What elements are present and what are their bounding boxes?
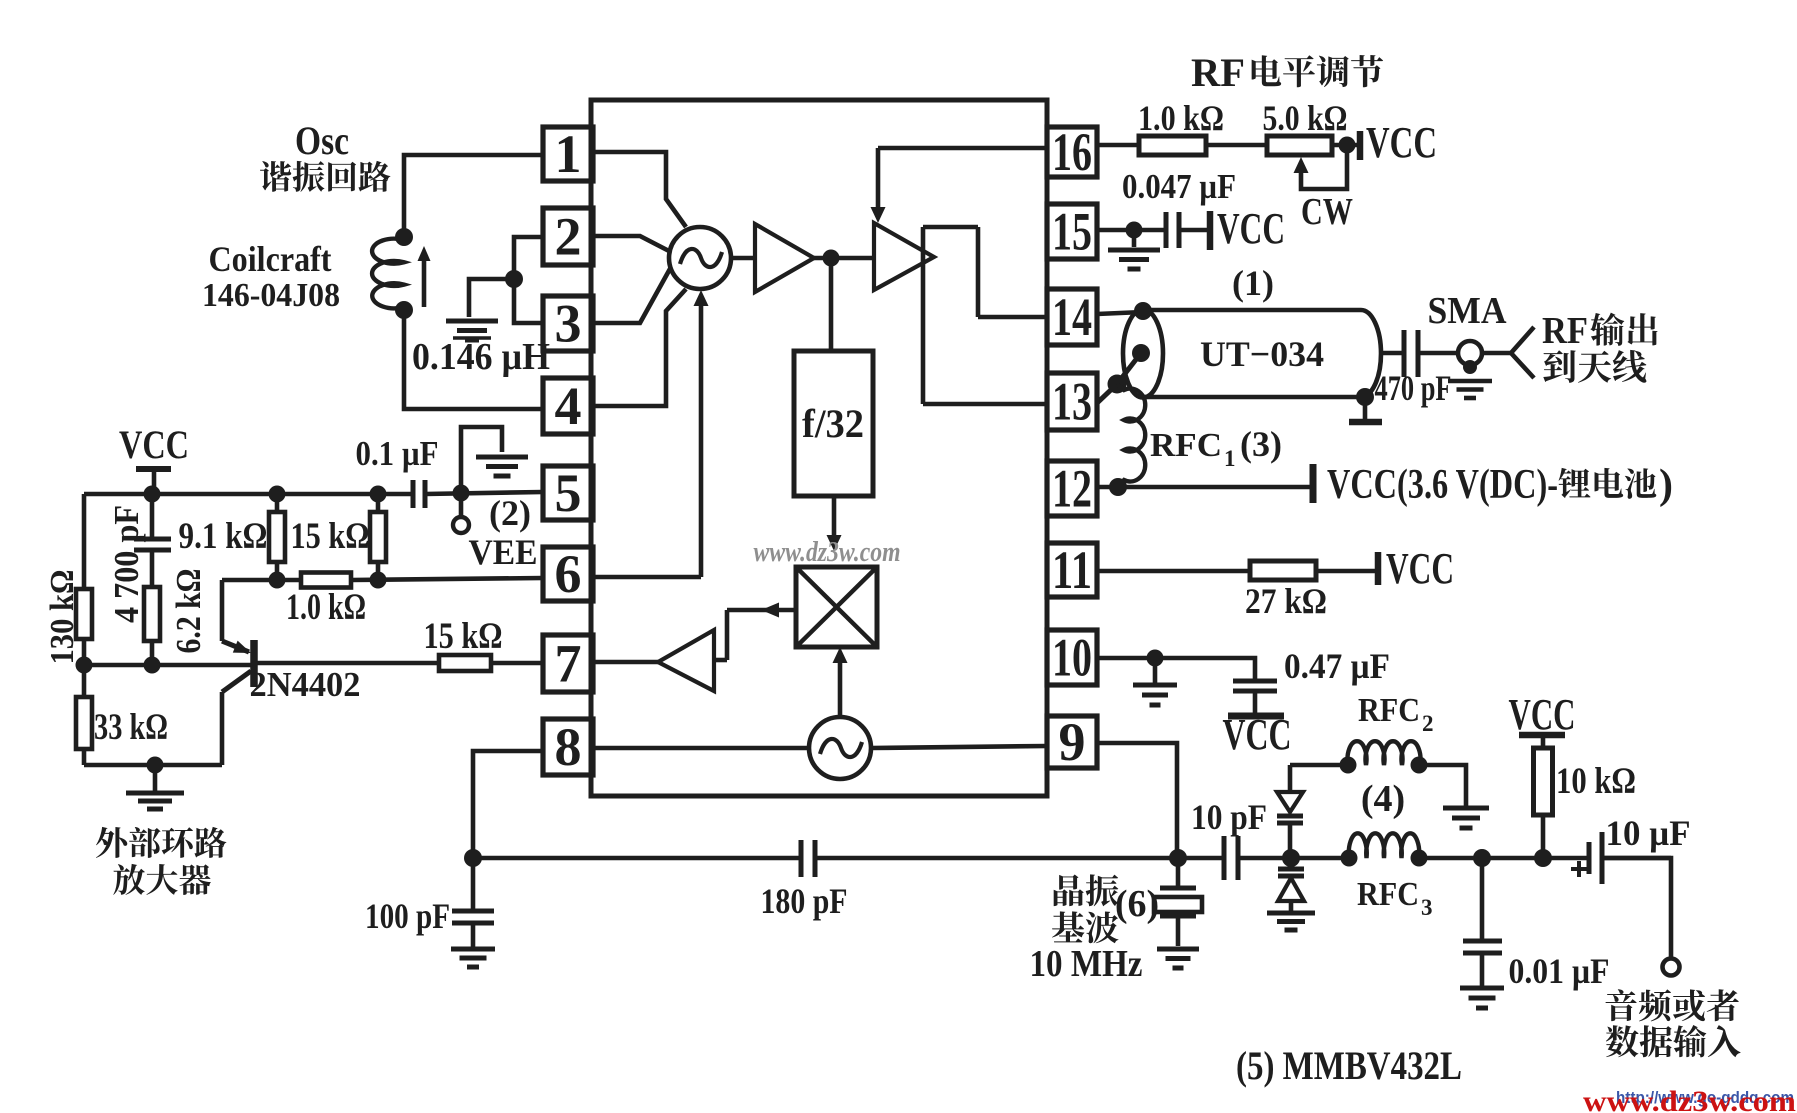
coax UT-034 body bbox=[1123, 310, 1381, 398]
capacitor 10uF (polar) bbox=[1571, 832, 1602, 884]
coax shield ground node bbox=[1356, 388, 1374, 406]
node RFC2 right bbox=[1411, 757, 1428, 774]
svg-text:1.0 kΩ: 1.0 kΩ bbox=[286, 587, 366, 628]
label 130 kOhm (rotated) bbox=[44, 570, 81, 665]
capacitor 470pF bbox=[1381, 330, 1458, 377]
node 100pF junction bbox=[464, 849, 482, 867]
svg-text:RF: RF bbox=[1191, 50, 1245, 95]
svg-text:VCC: VCC bbox=[1509, 690, 1576, 739]
svg-text:(2): (2) bbox=[489, 493, 531, 533]
inductor RFC3 bbox=[1349, 833, 1420, 858]
pin 10 bbox=[1047, 628, 1097, 688]
ground G1 (pins 2/3) bbox=[446, 279, 514, 340]
pin 2 bbox=[543, 207, 593, 267]
power VCC terminal (left) bbox=[119, 422, 189, 494]
mixer (modulator) box bbox=[796, 567, 877, 647]
node emitter rail left bbox=[269, 572, 286, 589]
pin 12 bbox=[1047, 459, 1097, 519]
arrow (tuning) beside L1 bbox=[418, 246, 431, 307]
wire cap to 6.2k bbox=[150, 550, 155, 587]
svg-text:14: 14 bbox=[1052, 287, 1092, 347]
wire cap to VCC (pin15) bbox=[1179, 228, 1210, 233]
node tank bottom bbox=[395, 301, 413, 319]
svg-text:27 kΩ: 27 kΩ bbox=[1245, 581, 1327, 621]
svg-text:6.2 kΩ: 6.2 kΩ bbox=[169, 569, 208, 654]
svg-text:0.047 µF: 0.047 µF bbox=[1122, 167, 1236, 206]
svg-text:2: 2 bbox=[555, 207, 582, 267]
node emitter rail right bbox=[370, 572, 387, 589]
pin 14 bbox=[1047, 287, 1097, 347]
wire tank bottom to pin4 bbox=[404, 310, 543, 409]
resistor 27k bbox=[1250, 561, 1316, 580]
feedback wire pin16 to A2 with arrow bbox=[871, 148, 1048, 223]
label tank circuit (Chinese) bbox=[260, 161, 291, 192]
inductor RFC1 bbox=[1117, 384, 1145, 486]
node 15k top bbox=[370, 486, 387, 503]
arrow oscillator to mixer bbox=[833, 647, 848, 717]
wire RFC2 right to ground bbox=[1419, 765, 1466, 806]
wire pin4 to oscillator bbox=[591, 289, 686, 406]
pin 15 bbox=[1047, 202, 1097, 262]
capacitor 100pF bbox=[452, 858, 494, 947]
label external loop amplifier line2 bbox=[113, 864, 145, 895]
svg-text:10 µF: 10 µF bbox=[1606, 813, 1691, 853]
amplifier A1 bbox=[755, 224, 814, 292]
wire base line left bbox=[84, 663, 252, 668]
svg-text:www.dz3w.com: www.dz3w.com bbox=[1583, 1085, 1796, 1113]
svg-text:10 MHz: 10 MHz bbox=[1030, 943, 1143, 985]
svg-text:www.dz3w.com: www.dz3w.com bbox=[754, 537, 901, 568]
pin 13 bbox=[1047, 372, 1097, 432]
power VCC terminal (10k) bbox=[1509, 690, 1576, 739]
wire oscillator to pin 9 bbox=[871, 746, 1047, 748]
varactor D2 (lower) bbox=[1278, 858, 1304, 911]
antenna symbol bbox=[1511, 327, 1534, 378]
svg-text:16: 16 bbox=[1052, 122, 1092, 182]
svg-text:VCC: VCC bbox=[119, 422, 189, 467]
label audio or data line2 (Chinese) bbox=[1606, 1025, 1639, 1057]
svg-text:10 kΩ: 10 kΩ bbox=[1556, 761, 1636, 802]
pin 4 bbox=[543, 376, 593, 436]
potentiometer 5.0k bbox=[1267, 136, 1332, 155]
resistor 10k bbox=[1534, 737, 1553, 858]
wire RFC2 left to varactor bbox=[1290, 763, 1348, 768]
terminal audio input open circle bbox=[1663, 959, 1680, 976]
wire pin8 to bottom rail bbox=[473, 751, 543, 858]
node bracket mid bbox=[505, 270, 523, 288]
divider f/32 box bbox=[794, 351, 873, 496]
amplifier A2 bbox=[874, 223, 934, 290]
resistor 1.0k (pin16) bbox=[1139, 136, 1206, 155]
svg-text:5.0 kΩ: 5.0 kΩ bbox=[1263, 98, 1348, 138]
svg-text:4: 4 bbox=[555, 376, 582, 436]
resistor 15k (pin7) bbox=[439, 655, 491, 671]
svg-text:RFC: RFC bbox=[1358, 692, 1420, 729]
svg-text:15 kΩ: 15 kΩ bbox=[291, 516, 370, 557]
power VCC terminal (pin12, battery) bbox=[1313, 462, 1673, 508]
wire pin11 to 27k bbox=[1097, 569, 1250, 574]
label external loop amplifier line1 bbox=[96, 827, 127, 858]
coax center conductor node bbox=[1132, 344, 1150, 362]
wire VCC rail to pin5 bbox=[84, 492, 543, 494]
svg-text:RF: RF bbox=[1542, 310, 1588, 352]
pin 3 bbox=[543, 294, 593, 354]
pin 6 bbox=[543, 544, 593, 604]
node base line mid bbox=[144, 657, 161, 674]
wire 33k to bottom rail bbox=[82, 749, 87, 765]
node tank top bbox=[395, 228, 413, 246]
svg-text:CW: CW bbox=[1301, 191, 1353, 233]
svg-text:2: 2 bbox=[1422, 711, 1434, 736]
svg-text:0.146 µH: 0.146 µH bbox=[412, 336, 550, 378]
wire pin9 down to audio rail bbox=[1097, 743, 1177, 858]
node 0.01uF junction bbox=[1473, 849, 1491, 867]
svg-text:13: 13 bbox=[1052, 372, 1092, 432]
amplifier A3 (to pin7) bbox=[658, 630, 714, 691]
wire pin16 to 1.0k bbox=[1097, 143, 1139, 148]
svg-text:f/32: f/32 bbox=[802, 401, 864, 446]
label audio or data line1 (Chinese) bbox=[1605, 989, 1636, 1021]
svg-text:(1): (1) bbox=[1232, 263, 1274, 303]
ground G2 (pin5 area) bbox=[461, 427, 528, 493]
wire 6.2k to base line bbox=[150, 641, 155, 665]
svg-text:11: 11 bbox=[1052, 540, 1092, 600]
node VCC rail x152 bbox=[144, 486, 161, 503]
power VCC terminal (pin16) bbox=[1360, 118, 1437, 167]
wire node to f/32 bbox=[829, 258, 834, 351]
pin 5 bbox=[543, 463, 593, 523]
svg-text:9.1 kΩ: 9.1 kΩ bbox=[179, 516, 268, 557]
wire A2 output Z-path to pins 14 and 13 bbox=[923, 227, 1047, 404]
resistor 1.0k (emitter) bbox=[301, 573, 351, 588]
wire A1 to A2 with node bbox=[814, 250, 874, 267]
svg-text:(3): (3) bbox=[1240, 424, 1282, 464]
ground G5 (coax) bbox=[1349, 397, 1382, 422]
connector SMA bbox=[1448, 341, 1492, 398]
resistor 15k (bias) bbox=[370, 494, 386, 580]
svg-text:VCC: VCC bbox=[1223, 710, 1292, 759]
wire A3 to pin 7 bbox=[591, 660, 658, 665]
ground G4 (pin15) bbox=[1108, 230, 1160, 269]
resistor 9.1k bbox=[269, 494, 285, 580]
wire pin1 to tank bbox=[404, 155, 543, 230]
svg-text:8: 8 bbox=[555, 717, 582, 777]
wire center conductor to pin13 node bbox=[1117, 353, 1141, 384]
wire bracket pins 2-3 bbox=[514, 237, 543, 323]
svg-text:10: 10 bbox=[1052, 628, 1092, 688]
svg-text:RFC: RFC bbox=[1150, 427, 1222, 464]
node 10k junction bbox=[1534, 849, 1552, 867]
svg-text:Coilcraft: Coilcraft bbox=[209, 239, 332, 279]
svg-text:UT−034: UT−034 bbox=[1200, 334, 1324, 374]
wire pin1 to oscillator bbox=[591, 152, 686, 227]
node crystal junction bbox=[1169, 849, 1187, 867]
capacitor 4700 pF bbox=[134, 539, 171, 550]
transistor Q1 2N4402 bbox=[222, 580, 254, 765]
capacitor 0.01uF bbox=[1463, 858, 1502, 986]
wire 1.0k to pot bbox=[1206, 143, 1267, 148]
wire pin2 to oscillator bbox=[591, 236, 669, 251]
wire pot to VCC bbox=[1332, 143, 1360, 148]
svg-text:3: 3 bbox=[555, 294, 582, 354]
node pin12 RFC1 bbox=[1109, 478, 1127, 496]
wire pin14 to coax bbox=[1097, 312, 1143, 314]
label 6.2 kOhm (rotated) bbox=[169, 569, 208, 654]
svg-text:1: 1 bbox=[555, 124, 582, 184]
label 0.146 uH with overline bbox=[412, 336, 550, 378]
pin 7 bbox=[543, 634, 593, 694]
svg-text:(5) MMBV432L: (5) MMBV432L bbox=[1236, 1043, 1462, 1088]
label RFC2 bbox=[1358, 692, 1434, 736]
ground G10 (RFC2) bbox=[1443, 806, 1489, 811]
wire 130k to base line bbox=[82, 639, 87, 697]
wire pin12 to VCC bbox=[1097, 485, 1313, 490]
svg-text:5: 5 bbox=[555, 463, 582, 523]
wire VCC rail down to cap bbox=[150, 494, 155, 539]
pin 1 bbox=[543, 124, 593, 184]
svg-text:4 700 pF: 4 700 pF bbox=[107, 505, 146, 623]
wire left vertical top bbox=[82, 494, 87, 589]
svg-text:1.0 kΩ: 1.0 kΩ bbox=[1138, 98, 1224, 138]
inductor L1 Coilcraft 146-04J08 bbox=[372, 239, 404, 309]
svg-text:100 pF: 100 pF bbox=[365, 896, 450, 936]
capacitor 0.047uF bbox=[1166, 212, 1179, 248]
arrow f/32 to mixer bbox=[827, 496, 842, 551]
svg-text:6: 6 bbox=[555, 544, 582, 604]
svg-text:SMA: SMA bbox=[1428, 290, 1508, 332]
wire base to 15k to pin7 bbox=[257, 661, 543, 666]
label to antenna (Chinese) bbox=[1543, 350, 1575, 383]
wire pin6 arrow into VCO bbox=[591, 290, 709, 577]
ground G6 (pin10) bbox=[1133, 658, 1177, 705]
crystal Y1 10MHz bbox=[1154, 858, 1202, 946]
label crystal line2 (Chinese) bbox=[1052, 911, 1084, 942]
node RFC3 left bbox=[1341, 850, 1358, 867]
svg-text:15 kΩ: 15 kΩ bbox=[424, 616, 503, 657]
svg-text:10 pF: 10 pF bbox=[1191, 797, 1267, 837]
varactor D1 (upper) bbox=[1277, 765, 1303, 858]
resistor 33k bbox=[76, 697, 92, 749]
node after 0.1uF bbox=[453, 485, 470, 502]
wire SMA to antenna bbox=[1482, 351, 1511, 356]
label crystal line1 (Chinese) bbox=[1054, 874, 1084, 906]
oscillator VCO symbol bbox=[669, 227, 731, 289]
wire pin15 to cap bbox=[1097, 228, 1166, 233]
svg-text:Osc: Osc bbox=[295, 118, 349, 163]
pin 11 bbox=[1047, 540, 1097, 600]
wire emitter rail to pin6 bbox=[222, 578, 543, 580]
svg-text:15: 15 bbox=[1052, 202, 1092, 262]
pin 8 bbox=[543, 717, 593, 777]
node RFC2 left bbox=[1340, 757, 1357, 774]
pin 9 bbox=[1047, 712, 1097, 772]
op-amp/IC U1 body bbox=[591, 100, 1047, 796]
svg-text:): ) bbox=[1659, 462, 1673, 508]
node 9.1k top bbox=[269, 486, 286, 503]
wire pin10 bbox=[1097, 658, 1255, 679]
label RFC3 bbox=[1357, 876, 1433, 920]
svg-text:(6): (6) bbox=[1115, 883, 1159, 925]
svg-text:12: 12 bbox=[1052, 459, 1092, 519]
node pin15 bbox=[1126, 222, 1143, 239]
svg-text:2N4402: 2N4402 bbox=[250, 665, 361, 704]
node pin10 bbox=[1147, 650, 1164, 667]
wire pin3 to oscillator bbox=[591, 267, 671, 323]
svg-text:0.01 µF: 0.01 µF bbox=[1509, 951, 1610, 991]
svg-text:146-04J08: 146-04J08 bbox=[202, 277, 340, 314]
ground G3 (bottom left) bbox=[126, 765, 184, 809]
pin 16 bbox=[1047, 122, 1097, 182]
node coax shield top bbox=[1134, 302, 1152, 320]
capacitor 180pF bbox=[801, 840, 815, 877]
capacitor 0.47uF bbox=[1233, 681, 1277, 713]
node RFC3 right bbox=[1411, 850, 1428, 867]
ground G8 (crystal) bbox=[1157, 947, 1199, 952]
svg-text:VCC: VCC bbox=[1366, 118, 1437, 167]
oscillator reference symbol bbox=[809, 717, 871, 779]
node ground bottom left bbox=[147, 757, 164, 774]
label RF level adjust (Chinese) bbox=[1191, 50, 1383, 95]
label RF output (Chinese) bbox=[1542, 310, 1658, 352]
wire pin13 diagonal bbox=[1097, 384, 1117, 403]
wire pin8 to oscillator bbox=[591, 746, 809, 751]
wire 10uF to input terminal bbox=[1602, 858, 1671, 959]
svg-text:33 kΩ: 33 kΩ bbox=[94, 707, 168, 748]
node varactor junction bbox=[1282, 849, 1300, 867]
terminal VEE open circle bbox=[453, 493, 469, 533]
svg-text:3: 3 bbox=[1421, 895, 1433, 920]
svg-text:130 kΩ: 130 kΩ bbox=[44, 570, 81, 665]
pot wiper arrow bbox=[1294, 150, 1348, 189]
ground G7 (100pF) bbox=[451, 947, 495, 952]
power VCC terminal (pin11) bbox=[1378, 544, 1454, 593]
wire collector bottom rail bbox=[84, 763, 222, 768]
resistor 130k bbox=[76, 589, 92, 639]
svg-text:0.47 µF: 0.47 µF bbox=[1284, 646, 1390, 686]
svg-text:RFC: RFC bbox=[1357, 876, 1419, 913]
wire bottom rail (audio/feedback bus) bbox=[473, 856, 1671, 861]
label 4 700 pF (rotated) bbox=[107, 505, 146, 623]
node base line left bbox=[76, 657, 93, 674]
svg-text:(4): (4) bbox=[1361, 778, 1405, 820]
svg-text:9: 9 bbox=[1059, 712, 1086, 772]
capacitor 10pF bbox=[1224, 836, 1238, 880]
svg-text:0.1 µF: 0.1 µF bbox=[356, 434, 439, 473]
power VCC terminal (pin10 cap) bbox=[1223, 710, 1292, 759]
svg-text:7: 7 bbox=[555, 634, 582, 694]
svg-text:VCC: VCC bbox=[1386, 544, 1454, 593]
svg-text:180 pF: 180 pF bbox=[761, 881, 848, 921]
resistor 6.2k bbox=[144, 587, 160, 641]
svg-text:VCC(3.6 V(DC)-: VCC(3.6 V(DC)- bbox=[1327, 462, 1558, 508]
node pot output bbox=[1339, 137, 1356, 154]
svg-text:VCC: VCC bbox=[1217, 204, 1285, 253]
wire VCO to amp A1 bbox=[731, 256, 755, 261]
svg-text:1: 1 bbox=[1224, 446, 1236, 471]
svg-text:470 pF: 470 pF bbox=[1375, 368, 1452, 408]
label RFC1 (3) bbox=[1150, 424, 1282, 471]
svg-text:VEE: VEE bbox=[469, 532, 538, 572]
inductor RFC2 bbox=[1348, 741, 1421, 765]
ground G11 (0.01uF) bbox=[1460, 986, 1504, 991]
wire mixer to amp A3 with arrow bbox=[714, 603, 796, 661]
node pin13 junction bbox=[1108, 375, 1127, 394]
ground G9 (varactor) bbox=[1267, 911, 1315, 916]
capacitor 0.1uF bbox=[413, 480, 425, 508]
power VCC terminal (pin15) bbox=[1210, 204, 1285, 253]
wire 27k to VCC bbox=[1316, 569, 1378, 574]
